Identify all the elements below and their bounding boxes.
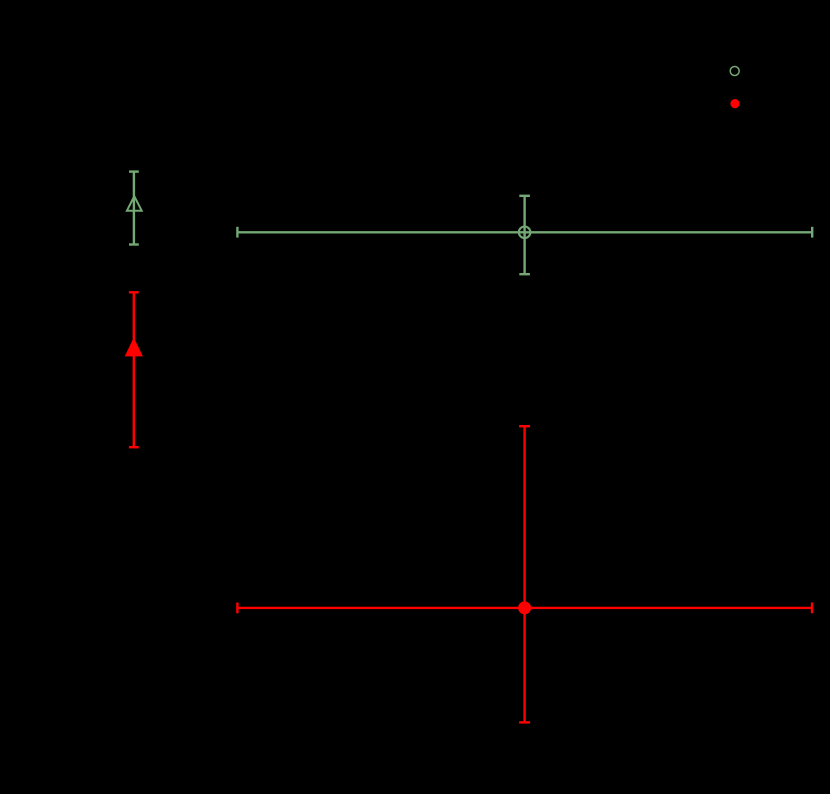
green open triangle marker [127, 196, 142, 211]
green vertical error bar (left) [129, 172, 139, 245]
legend filled red circle [730, 99, 739, 108]
green open circle marker [519, 227, 531, 239]
red cross error bars [237, 426, 812, 722]
red filled circle marker [518, 601, 531, 614]
green cross error bars [237, 196, 812, 274]
red vertical error bar (left) [129, 292, 139, 447]
legend open green circle [730, 67, 739, 76]
red filled triangle marker [126, 339, 143, 356]
